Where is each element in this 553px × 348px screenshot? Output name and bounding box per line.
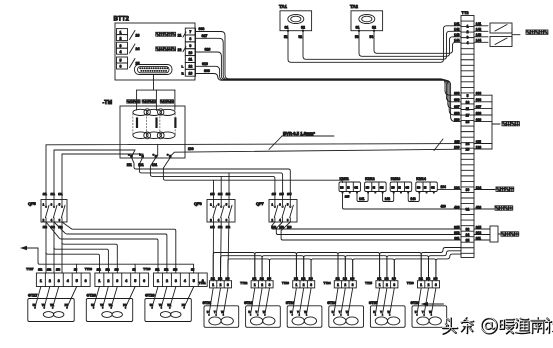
svg-text:600: 600 [454,98,460,102]
watermark highlight pass [442,317,553,333]
svg-text:4: 4 [125,279,127,283]
svg-text:131: 131 [152,163,158,167]
stub labels above TT29 [155,269,194,272]
svg-text:141: 141 [294,278,299,281]
wire 430 from KM11 to TT2 cell 31 [343,193,462,209]
svg-text:17: 17 [466,114,470,118]
svg-text:153: 153 [56,269,61,272]
svg-text:GT25: GT25 [369,301,378,305]
wire 619 from BTT2 pin to terminal strip TT2 [196,62,462,115]
terminal strip TT26 [407,281,440,288]
svg-text:30: 30 [466,188,470,192]
tap from 115 line to transformer terminal c [157,145,159,157]
svg-text:3: 3 [58,279,60,283]
svg-text:CM: CM [405,188,409,190]
svg-text:163: 163 [287,225,292,229]
svg-text:3: 3 [116,279,118,283]
wire 144 from TA to strip TT2 cell 4 [374,31,461,54]
svg-text:3: 3 [269,283,271,287]
svg-text:5: 5 [76,279,78,283]
terminal strip TT23 [282,281,315,288]
wire 143 from TA to strip TT2 cell 3 [359,31,461,57]
terminal strip TT24 [324,281,357,288]
cable slash marker on 115/130 lines [434,139,443,151]
wire 141 from TA to strip TT2 cell 1 [288,26,461,63]
svg-text:600: 600 [204,69,210,73]
svg-text:10: 10 [466,100,470,104]
wires TT21 to GT21 [209,288,228,315]
QF5 fan wire 4 to TT28 [62,243,117,274]
svg-text:GT24: GT24 [327,301,336,305]
svg-text:KC: KC [340,188,344,190]
svg-text:142: 142 [260,278,265,281]
wire 430 to signal panel [474,206,513,210]
terminal strip TT2 [461,10,474,257]
svg-text:143: 143 [434,278,439,281]
wire 134 from KM14 to TT2 cell 30 [437,185,461,189]
svg-text:23: 23 [136,34,140,38]
TT2 terminal numbers and wire labels [454,22,481,242]
svg-text:627: 627 [454,105,460,109]
svg-text:33: 33 [466,228,470,232]
bridge wire TT23 to TT24 cell 3 [311,259,353,281]
svg-text:2: 2 [386,283,388,287]
terminal strip TT29 [143,267,207,287]
svg-text:GT21: GT21 [203,301,212,305]
svg-text:1: 1 [157,279,159,283]
svg-text:6: 6 [85,279,87,283]
cable size label BVR-0.5 1.0mm2 [269,131,334,150]
cooling fan motor GT21 [203,301,239,327]
bridge wire TT25 to TT26 cell 3 [394,259,436,281]
svg-text:3: 3 [352,283,354,287]
svg-text:4: 4 [67,279,69,283]
bridge wire TT21 to TT22 cell 3 [228,259,270,281]
svg-text:GT27: GT27 [28,294,38,298]
breaker output wire labels [43,225,292,229]
wires TT24 to GT24 [334,288,353,315]
label phase C temperature [160,100,173,103]
svg-text:134: 134 [441,185,447,189]
wire 913 from QF7 to strip TT2 [276,222,461,235]
svg-text:5: 5 [134,279,136,283]
svg-text:GT26: GT26 [411,301,420,305]
svg-text:7: 7 [189,30,191,34]
svg-text:4: 4 [120,50,122,54]
svg-text:51: 51 [284,35,288,39]
wires TT23 to GT23 [292,288,311,315]
svg-text:U: U [415,311,417,314]
QF5 fan wire 5 to TT28 [54,248,108,274]
wire 141 between KM coils [357,193,368,202]
TM terminals a b c o [128,152,171,157]
svg-text:TT26: TT26 [407,281,414,285]
svg-text:143: 143 [267,278,272,281]
svg-text:QF6: QF6 [194,201,203,206]
label: voltage patrol text row 2 with pin 22 [156,47,186,52]
contactor coil KM13 [390,177,412,193]
svg-text:141: 141 [359,197,365,201]
svg-text:151: 151 [97,269,102,272]
svg-text:141: 141 [419,278,424,281]
svg-text:2: 2 [49,279,51,283]
watermark Toutiao @nuantongnanshe [443,318,553,334]
bridge wire TT24 to TT25 cell 3 [353,259,395,281]
svg-text:2: 2 [220,283,222,287]
svg-text:151: 151 [38,269,43,272]
svg-text:1N: 1N [191,269,194,272]
wires TT22 to GT22 [251,288,270,315]
svg-text:143: 143 [350,278,355,281]
svg-text:11: 11 [466,107,470,111]
svg-text:1N: 1N [132,269,135,272]
svg-text:GT23: GT23 [286,301,295,305]
svg-text:115: 115 [272,192,277,196]
svg-text:TA2: TA2 [350,4,359,9]
svg-text:5: 5 [120,59,122,63]
cooling fan motor GT26 [411,301,447,327]
wire 627 from BTT2 pin to terminal strip TT2 [196,34,462,102]
svg-text:609: 609 [454,118,460,122]
phase c feeder line to QF6 pole 2 and QF7 pole 1 [150,158,275,200]
svg-text:3: 3 [435,283,437,287]
svg-text:2: 2 [107,279,109,283]
svg-text:141: 141 [377,278,382,281]
cooling fan motor GT24 [327,301,363,327]
wires TT29 to GT29 [152,287,194,308]
wire 626 from BTT2 pin to terminal strip TT2 [196,48,462,109]
svg-text:112: 112 [43,225,48,229]
svg-text:3: 3 [310,283,312,287]
svg-text:54: 54 [370,35,374,39]
terminal strip TT27 [26,267,90,287]
svg-text:TT22: TT22 [240,281,247,285]
svg-text:U: U [332,311,334,314]
QF5 fan wire 3 to TT29 [46,222,158,273]
svg-text:142: 142 [454,28,460,32]
stub labels above TT22 [252,278,271,281]
fuse link 23 [130,31,140,40]
svg-text:KM14: KM14 [416,177,426,181]
svg-text:22: 22 [178,48,182,52]
svg-text:153: 153 [173,269,178,272]
svg-text:IN: IN [347,188,350,190]
svg-text:IN: IN [373,188,376,190]
svg-text:-TM: -TM [103,100,113,106]
wire TT26 cell 1 to strip TT2 [421,248,461,281]
transformer -TM [103,100,186,158]
svg-text:608: 608 [454,92,460,96]
svg-text:6: 6 [120,65,122,69]
current transformer TA2 [350,4,383,39]
svg-text:121: 121 [51,192,56,196]
BTT2 output terminals 7-13 [182,28,196,76]
cooling fan motor GT22 [244,301,280,327]
svg-text:21: 21 [178,33,182,37]
svg-text:141: 141 [454,22,460,26]
wire QF5 pole 1 to TT27 cell 1 [45,222,47,273]
svg-text:142: 142 [426,278,431,281]
wires TT27 to GT27 [35,287,77,308]
phase b feeder line to QF6 pole 3 and QF7 pole 2 [139,158,282,200]
wire QF5 pole 1 riser [45,145,47,200]
contactor coil KM14 [416,177,438,193]
svg-text:1: 1 [467,24,469,28]
svg-text:U: U [290,311,292,314]
svg-text:141: 141 [211,278,216,281]
bridge wire TT23 to TT24 cell 1 [296,253,338,281]
svg-text:626: 626 [205,48,211,52]
svg-text:125: 125 [279,192,284,196]
svg-text:152: 152 [47,269,52,272]
label: voltage patrol text row 1 with pin 21 [156,32,186,37]
svg-text:4: 4 [184,279,186,283]
svg-text:1: 1 [379,283,381,287]
svg-text:L: L [182,65,184,69]
QF6 top risers [214,173,230,200]
svg-text:5: 5 [193,279,195,283]
QF5 fan wire 1 to TT29 [62,222,176,273]
svg-text:152: 152 [218,225,223,229]
QF5 fan wire 2 to TT29 [54,222,167,273]
phase a feeder line to QF7 pole 3 [132,158,291,200]
svg-text:2: 2 [166,279,168,283]
svg-text:142: 142 [210,225,215,229]
svg-text:144: 144 [454,39,460,43]
svg-text:3: 3 [120,44,122,48]
svg-text:1: 1 [254,283,256,287]
svg-text:8: 8 [189,37,191,41]
svg-text:3: 3 [175,279,177,283]
stub labels above TT24 [336,278,355,281]
stub labels above TT26 [419,278,438,281]
svg-text:BVR-0.5 1.0mm²: BVR-0.5 1.0mm² [283,131,315,136]
svg-text:11: 11 [189,58,193,62]
wire 142 from TA to strip TT2 cell 2 [303,31,461,60]
svg-text:1: 1 [337,283,339,287]
svg-text:143: 143 [392,278,397,281]
svg-text:KC: KC [366,188,370,190]
svg-text:BTT2: BTT2 [114,16,130,23]
svg-text:619: 619 [202,62,208,66]
svg-text:142: 142 [343,278,348,281]
svg-text:143: 143 [454,33,460,37]
svg-text:QF5: QF5 [28,201,37,206]
terminal strip TT21 [199,281,232,288]
svg-text:S2: S2 [301,26,305,30]
wire 915 from QF7 to strip TT2 [272,222,462,229]
svg-text:53: 53 [355,35,359,39]
svg-text:U: U [207,311,209,314]
svg-text:3: 3 [227,283,229,287]
svg-text:141: 141 [252,278,257,281]
svg-text:KM11: KM11 [340,177,349,181]
BTT2 DB connector [135,65,173,75]
svg-text:143: 143 [410,197,416,201]
bridge wire TT24 to TT25 cell 2 [345,256,387,281]
svg-text:TT2: TT2 [462,10,470,15]
svg-text:24: 24 [136,47,140,51]
svg-text:2: 2 [303,283,305,287]
wire 143 between KM coils [408,193,419,202]
bridge wire TT24 to TT25 cell 1 [338,253,380,281]
svg-text:24: 24 [466,142,470,146]
svg-text:TT29: TT29 [143,267,151,271]
svg-text:12: 12 [188,65,192,69]
cable 915/913/911 to signal panel [474,226,519,242]
svg-text:1N: 1N [74,269,77,272]
svg-text:626: 626 [454,111,460,115]
terminal strip TT22 [240,281,273,288]
svg-text:2: 2 [120,36,122,40]
stub labels above TT23 [294,278,313,281]
svg-text:152: 152 [106,269,111,272]
svg-text:114: 114 [210,192,215,196]
svg-text:151: 151 [155,269,160,272]
wire QF6 pole 2 to TT21 cell 2 [220,222,223,281]
wire QF5 pole 2 to TT27 cell 2 [53,222,55,273]
svg-text:TT27: TT27 [26,267,34,271]
svg-text:GT22: GT22 [244,301,253,305]
svg-text:142: 142 [385,278,390,281]
svg-text:627: 627 [202,34,208,38]
PE ground arrow left [20,246,38,250]
wire 608 from BTT2 pin to terminal strip TT2 [196,27,462,95]
wires TT25 to GT25 [375,288,394,315]
cooling fan motor GT29 [145,294,191,322]
svg-text:3: 3 [467,35,469,39]
wire QF6 pole 1 to TT21 cell 1 [212,222,214,281]
svg-text:TT23: TT23 [282,281,289,285]
svg-text:124: 124 [218,192,223,196]
bridge wire TT25 to TT26 cell 2 [387,256,429,281]
svg-text:S1: S1 [356,26,360,30]
bridge wire TT23 to TT24 cell 2 [304,256,346,281]
stub labels above TT21 [211,278,230,281]
circuit breaker QF7 [256,200,297,223]
terminal wire labels 111 121 131 [127,163,158,167]
svg-text:153: 153 [115,269,120,272]
svg-text:2: 2 [428,283,430,287]
svg-text:25: 25 [466,148,470,152]
svg-text:143: 143 [309,278,314,281]
label phase B temperature [142,100,155,103]
wires TT28 to GT28 [94,287,136,308]
svg-text:130: 130 [188,147,194,151]
fuse link 25 [130,59,140,68]
svg-text:1: 1 [40,279,42,283]
transformer TM leader from BTT2 connector [137,75,175,111]
svg-text:3: 3 [393,283,395,287]
svg-text:1: 1 [212,283,214,287]
svg-text:KM12: KM12 [365,177,375,181]
svg-text:608: 608 [199,27,205,31]
svg-text:GT28: GT28 [87,294,97,298]
contactor coil KM12 [365,177,387,193]
QF5 fan wire 6 to TT28 [46,253,100,274]
cable to energy meter panel (cells 1-4) [474,23,548,47]
svg-text:142: 142 [301,278,306,281]
svg-text:S1: S1 [285,26,289,30]
riser wire number labels [43,192,292,196]
svg-text:KC: KC [391,188,395,190]
svg-text:6: 6 [143,279,145,283]
contactor coil KM11 [339,177,361,193]
svg-text:S2: S2 [372,26,376,30]
svg-text:CM: CM [380,188,384,190]
svg-text:13: 13 [188,71,192,75]
svg-text:35: 35 [466,239,470,243]
svg-text:CM: CM [431,188,435,190]
wire QF6 pole 3 to TT21 cell 3 [228,222,229,281]
terminal strip TT28 [85,267,149,287]
svg-text:IN: IN [398,188,401,190]
bridge wire TT22 to TT23 cell 2 [262,256,304,281]
svg-text:141: 141 [336,278,341,281]
wires TT26 to GT26 [417,288,436,315]
svg-text:34: 34 [466,233,470,237]
stub labels above TT28 [97,269,136,272]
svg-text:5: 5 [467,94,469,98]
svg-text:142: 142 [385,197,391,201]
fuse link 24 [130,44,140,53]
svg-text:QF7: QF7 [256,201,265,206]
wire 142 between KM coils [383,193,394,202]
circuit breaker QF5 [28,200,67,223]
svg-text:GT29: GT29 [145,294,155,298]
BTT2 sensor input terminals 1-6 [117,29,128,69]
bridge wire TT21 to TT22 cell 1 [213,253,255,281]
svg-text:52: 52 [299,35,303,39]
label phase A temperature [127,100,140,103]
wire 130 from terminal o to TT2 cell 25 [170,147,461,157]
svg-text:143: 143 [226,278,231,281]
bridge wire TT22 to TT23 cell 3 [270,259,312,281]
TM winding cylinders [133,109,177,139]
wire QF5 pole 3 to TT27 cell 3 [61,222,63,273]
PE wire to fan motor groups [38,248,194,273]
svg-text:152: 152 [164,269,169,272]
cooling fan motor GT23 [286,301,322,327]
PE ground arrow right [421,302,444,306]
svg-text:9: 9 [189,44,191,48]
svg-text:KM13: KM13 [391,177,401,181]
svg-text:131: 131 [58,192,63,196]
cooling fan motor GT27 [28,294,74,322]
svg-text:TT25: TT25 [365,281,372,285]
svg-text:18: 18 [466,120,470,124]
svg-text:2: 2 [261,283,263,287]
svg-text:U: U [248,311,250,314]
svg-text:111: 111 [43,192,48,196]
bridge wire TT21 to TT22 cell 2 [221,256,263,281]
svg-text:4: 4 [467,41,469,45]
stub labels above TT25 [377,278,396,281]
current transformer TA1 [279,4,312,39]
svg-text:135: 135 [287,192,292,196]
svg-text:TT28: TT28 [85,267,93,271]
wire TT26 cell 2 to strip TT2 [429,251,462,281]
svg-text:111: 111 [127,163,132,167]
wire 134 to DC supply panel [474,187,514,191]
bridge wire TT22 to TT23 cell 1 [255,253,297,281]
stub labels above TT27 [38,269,77,272]
wire from terminal b to QF5 pole 3 [62,154,143,200]
wire 600 from BTT2 pin to terminal strip TT2 [196,69,462,122]
bridge wire TT25 to TT26 cell 1 [380,253,422,281]
svg-text:10: 10 [188,51,192,55]
wire TT26 cell 3 to strip TT2 [436,254,461,281]
